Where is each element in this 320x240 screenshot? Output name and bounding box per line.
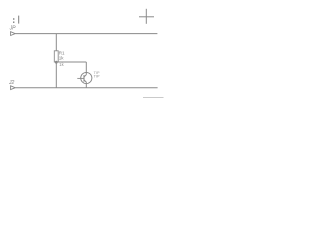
colon dot upper [13, 18, 14, 19]
wire: emitter to bottom rail [85, 82, 87, 88]
svg-text:R1: R1 [59, 50, 65, 55]
cross marker [139, 9, 154, 24]
svg-text:TIP: TIP [94, 75, 100, 79]
svg-text:1k: 1k [59, 56, 65, 61]
resistor R1 body [54, 51, 58, 62]
wire: bottom rail [15, 87, 157, 89]
global label chevron (top) [11, 32, 16, 36]
frame line fragment (bottom right) [143, 97, 164, 99]
wire: resistor bottom to bottom rail [55, 62, 57, 88]
transistor base bar [83, 75, 85, 82]
colon dot lower [13, 22, 14, 23]
transistor collector diagonal [84, 75, 86, 77]
svg-text:1k: 1k [59, 62, 64, 67]
svg-text:JP: JP [9, 26, 17, 32]
vertical bar mark [18, 16, 20, 24]
wire: branch to transistor (vertical, collector feed) [85, 62, 87, 75]
wire: branch to transistor (horizontal) [56, 61, 86, 63]
wire: top rail [15, 33, 157, 35]
wire: rail to resistor top [55, 34, 57, 51]
junction dot [55, 61, 58, 64]
global label chevron (bottom) [11, 86, 16, 90]
transistor base pin stub [77, 77, 84, 79]
svg-text:J2: J2 [8, 80, 15, 86]
transistor emitter diagonal with arrow [84, 80, 86, 82]
transistor Q1 circle [81, 72, 92, 83]
